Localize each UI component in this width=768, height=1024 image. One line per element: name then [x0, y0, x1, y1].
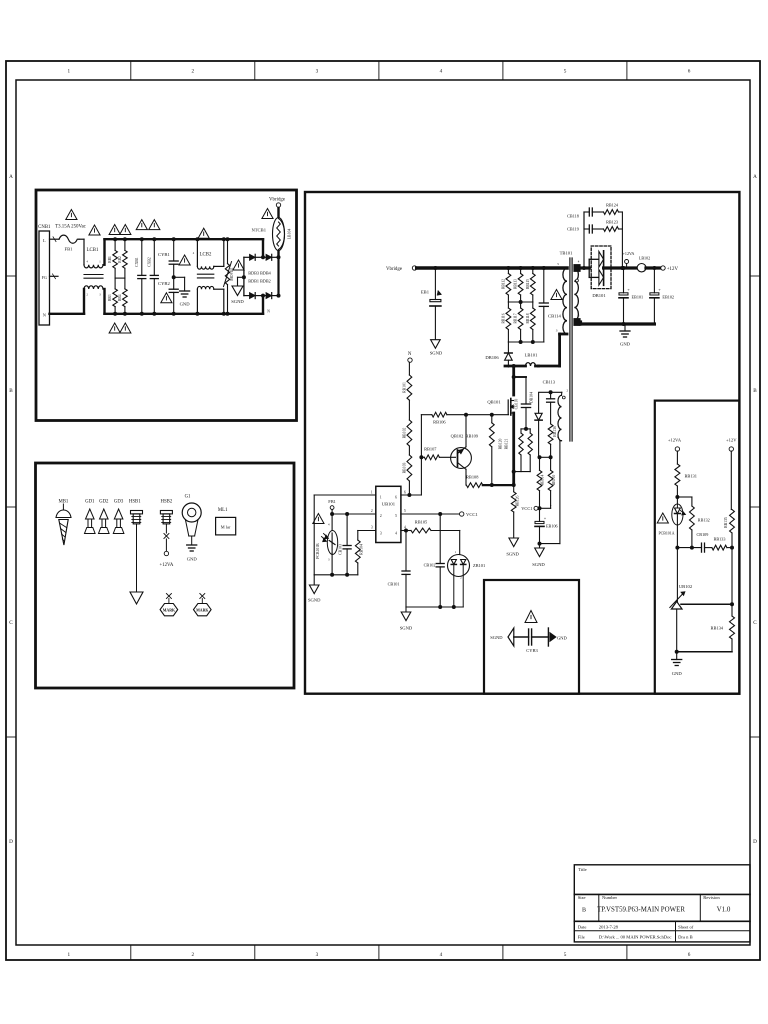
wire DB101 output [604, 266, 638, 269]
svg-text:CXB2: CXB2 [148, 257, 152, 267]
snubber resistor RB112 [506, 266, 510, 270]
svg-text:B: B [753, 388, 757, 394]
svg-text:EB102: EB102 [662, 295, 674, 300]
resistor RB124 [604, 210, 619, 215]
svg-text:CXB1: CXB1 [135, 257, 139, 267]
L rail top [105, 238, 264, 240]
svg-text:Size: Size [578, 895, 586, 900]
warning triangle right of CYB1 [179, 255, 190, 265]
svg-text:RB116: RB116 [501, 313, 505, 323]
svg-text:RB117: RB117 [514, 313, 518, 323]
left reference strip dividers [6, 275, 16, 277]
net +12VA pin [620, 266, 624, 270]
svg-text:Vbridge: Vbridge [386, 267, 402, 272]
diode DB104 [538, 392, 540, 413]
wire bridge negative to SGND [238, 276, 244, 278]
junction drain node [512, 364, 516, 368]
svg-text:RB114: RB114 [541, 475, 545, 486]
capacitor CB118 [583, 212, 585, 268]
wire gate drive vertical [420, 415, 422, 495]
capacitor CYB2 [173, 277, 175, 289]
svg-text:Title: Title [578, 867, 587, 872]
svg-text:1: 1 [371, 490, 373, 494]
resistor RB2 [124, 239, 126, 250]
svg-text:RB112: RB112 [501, 279, 505, 289]
svg-text:2: 2 [192, 952, 195, 958]
junction dots RB bank [113, 237, 117, 241]
svg-text:Number: Number [602, 895, 618, 900]
capacitor EB101 [622, 266, 626, 270]
svg-text:5: 5 [395, 514, 397, 518]
optocoupler PCB101B [331, 514, 333, 531]
svg-text:RB134: RB134 [711, 626, 724, 631]
inductor LB104 parallel [279, 219, 285, 250]
mechanical parts block border [36, 463, 295, 688]
wire LCB2 bottom pins [196, 289, 198, 314]
signal ground SGND below EB1 [431, 340, 441, 349]
svg-text:5: 5 [404, 509, 406, 513]
svg-text:UB102: UB102 [679, 584, 693, 589]
signal ground SGND of bridge [232, 286, 243, 296]
svg-text:D: D [9, 839, 13, 845]
svg-text:EB106: EB106 [546, 524, 558, 529]
svg-text:C: C [9, 620, 13, 626]
wire G1 to GND [191, 536, 193, 545]
controller UB101 [376, 486, 401, 542]
resistor RB105 [411, 528, 431, 533]
svg-text:6: 6 [688, 69, 691, 75]
net VCC1 pin aux [538, 506, 542, 510]
svg-text:VCC1: VCC1 [466, 512, 478, 517]
wire bridge positive to NTCB1 [277, 251, 279, 257]
svg-text:FB1: FB1 [328, 499, 336, 504]
svg-text:PCB101B: PCB101B [316, 543, 320, 559]
wire pin1 vertical to SGND rail [313, 495, 315, 575]
svg-text:A: A [9, 174, 13, 180]
warning triangle left of PCB101A [657, 513, 668, 523]
zener ZB101 [459, 531, 461, 555]
varistor MOVB1 [227, 239, 229, 263]
warning triangle above LCB2 [198, 228, 209, 238]
svg-text:+12VA: +12VA [623, 251, 635, 256]
resistor RB106 [432, 412, 447, 417]
svg-text:TP.VST59.P63-MAIN POWER: TP.VST59.P63-MAIN POWER [597, 906, 685, 913]
svg-text:CB118: CB118 [567, 214, 579, 219]
net +12VA pin of HSB2 [164, 551, 168, 555]
snubber resistor RB115 [531, 266, 535, 270]
wire CY junction to GND [174, 276, 185, 278]
wire opto bottom rail [314, 574, 358, 576]
resistor RB131 [676, 451, 678, 464]
svg-text:6: 6 [395, 495, 397, 499]
wire UB102 ref [681, 603, 732, 605]
svg-text:M lar: M lar [221, 525, 231, 530]
snubber resistor RB118 [532, 302, 534, 308]
svg-text:T3.15A 250Vac: T3.15A 250Vac [55, 224, 87, 229]
svg-text:ML1: ML1 [218, 508, 228, 513]
wire VCC local rail [406, 606, 463, 608]
capacitor CB110 snubber [512, 375, 516, 379]
svg-text:File: File [578, 935, 585, 940]
chassis triangle of HSB1 [130, 592, 143, 604]
svg-text:DB104: DB104 [530, 392, 534, 403]
wire QB101 source [512, 413, 515, 485]
svg-text:BDB3 BDB4: BDB3 BDB4 [248, 270, 271, 275]
wire LCB1 bottom right to N rail [103, 288, 105, 290]
common mode choke LCB2 [197, 266, 213, 269]
warning triangle in Y-cap box [525, 611, 537, 623]
svg-text:CYB1: CYB1 [158, 252, 170, 257]
svg-text:NTCB1: NTCB1 [251, 228, 266, 233]
svg-text:4: 4 [440, 69, 443, 75]
feedback sub-block border [655, 401, 740, 694]
wire HSB2 to +12VA [165, 524, 167, 533]
wire secondary ground rail [579, 322, 582, 324]
wire compensation node [677, 547, 701, 549]
svg-text:CYB2: CYB2 [158, 281, 170, 286]
resistor RB132 [677, 496, 692, 498]
svg-text:3: 3 [556, 329, 558, 333]
wire UB101 pin5 VCC1 [401, 513, 460, 515]
ground GND of secondary [624, 324, 626, 331]
svg-text:BDB1 BDB2: BDB1 BDB2 [248, 279, 270, 284]
svg-text:+: + [627, 287, 630, 292]
wire UB101 pin2 [332, 513, 376, 515]
warning triangle above LCB1 [89, 225, 100, 235]
svg-text:CB103: CB103 [338, 544, 342, 555]
resistor RB102 [408, 400, 410, 420]
wire aux junction [539, 456, 551, 458]
Y-cap sub-block border [484, 580, 579, 694]
title block outline [574, 865, 750, 942]
svg-text:RB131: RB131 [685, 474, 697, 479]
wire UB101 pin4 [401, 530, 411, 532]
bridge diode BDB4 [263, 256, 266, 258]
svg-text:CB113: CB113 [543, 380, 556, 385]
svg-text:RB109: RB109 [466, 434, 479, 439]
svg-text:N: N [267, 310, 270, 314]
svg-text:GND: GND [620, 342, 631, 347]
svg-text:+: + [658, 287, 661, 292]
resistor RB121 [529, 429, 531, 433]
transformer secondary pin stubs [574, 265, 580, 272]
resistor RB103 [408, 446, 410, 455]
resistor RB3 [114, 278, 116, 289]
capacitor CB109 [701, 543, 703, 552]
bottom reference strip dividers [130, 945, 132, 960]
svg-text:B: B [582, 908, 586, 914]
svg-text:RB126: RB126 [516, 496, 520, 507]
svg-text:5: 5 [564, 69, 567, 75]
svg-text:5: 5 [557, 262, 559, 266]
resistor RB120 [520, 429, 522, 433]
svg-text:LB101: LB101 [525, 353, 538, 358]
capacitor CYB1 [173, 239, 175, 261]
signal ground SGND of opto [313, 575, 315, 585]
svg-text:GD3: GD3 [114, 500, 124, 505]
main power block border [305, 192, 739, 694]
wire UB102 anode rail [676, 609, 678, 652]
inductor LB102 [637, 264, 646, 272]
shunt regulator UB102 [676, 548, 678, 602]
svg-text:SGND: SGND [231, 299, 244, 304]
resistor RB4 [124, 278, 126, 289]
svg-text:QB101: QB101 [487, 400, 501, 405]
svg-text:RB101: RB101 [402, 382, 406, 393]
svg-text:2: 2 [380, 514, 382, 518]
warning triangles above CXB1 CXB2 [136, 220, 147, 230]
svg-text:RB120: RB120 [499, 439, 503, 450]
svg-text:RB113: RB113 [514, 279, 518, 289]
capacitor CB103 [345, 512, 349, 516]
snubber resistor RB117 [520, 302, 522, 308]
signal ground SGND below CB101 [405, 607, 407, 612]
svg-text:SGND: SGND [506, 552, 519, 557]
resistor RB135 [730, 451, 732, 509]
svg-text:RB124: RB124 [606, 203, 619, 208]
svg-text:Sheet of: Sheet of [678, 924, 694, 929]
svg-text:UB101: UB101 [382, 502, 396, 507]
wire drain node to LB101 [505, 365, 526, 368]
wire RB mid link [115, 277, 125, 279]
common mode choke LCB1 [84, 265, 103, 268]
top reference strip dividers [130, 61, 132, 80]
ground GND of feedback [676, 652, 678, 660]
wire QB101 drain [512, 366, 515, 395]
wire snubber mid rail [508, 301, 532, 303]
svg-text:DB106: DB106 [485, 355, 499, 360]
svg-text:A: A [753, 174, 757, 180]
svg-text:ZB101: ZB101 [473, 563, 485, 568]
snubber resistor RB116 [507, 302, 509, 308]
svg-text:4: 4 [440, 952, 443, 958]
resistor RB133 [705, 547, 712, 549]
capacitor CYB3 [528, 629, 530, 645]
rectifier DB101 [591, 246, 611, 289]
resistor RB123 [604, 227, 619, 232]
wire gate drive [421, 414, 432, 416]
net Vbridge output [277, 207, 279, 217]
svg-text:Vbridge: Vbridge [269, 198, 285, 203]
mylar box ML1 [216, 517, 236, 535]
bridge diode BDB3 [244, 256, 250, 258]
svg-text:CB109: CB109 [697, 532, 709, 537]
svg-text:+12VA: +12VA [159, 563, 173, 568]
svg-text:CB101: CB101 [388, 582, 400, 587]
svg-text:FG: FG [42, 276, 47, 280]
signal ground SGND below RB126 [509, 538, 519, 547]
svg-text:MARK: MARK [163, 609, 175, 613]
wire primary bus [417, 266, 567, 270]
svg-text:RB103: RB103 [402, 463, 406, 474]
svg-text:5: 5 [564, 952, 567, 958]
svg-text:SGND: SGND [308, 598, 321, 603]
capacitor EB106 [539, 508, 541, 521]
net +12V pin feedback [729, 447, 733, 451]
wire divider node [730, 546, 734, 550]
svg-text:GD1: GD1 [85, 500, 95, 505]
svg-text:4: 4 [395, 532, 397, 536]
N rail bottom [105, 313, 264, 315]
svg-text:CB110: CB110 [515, 399, 519, 410]
wire RB108 to source node [483, 484, 514, 486]
capacitor CB114 [542, 266, 546, 270]
svg-text:6: 6 [688, 952, 691, 958]
wire LCB2 top pins [196, 239, 198, 266]
bridge negative bus [243, 257, 245, 295]
resistor RB107 [419, 455, 423, 459]
svg-text:3: 3 [380, 532, 382, 536]
svg-text:L: L [43, 238, 46, 243]
transistor QB102 [451, 448, 472, 469]
capacitor CB101 [405, 531, 407, 572]
svg-text:Dra n B: Dra n B [678, 935, 693, 940]
net +12V pin [661, 266, 665, 270]
title block column lines [598, 894, 600, 921]
svg-text:RB123: RB123 [606, 220, 618, 225]
mark symbol MARK2 [200, 594, 205, 599]
svg-text:G1: G1 [185, 495, 191, 500]
resistor RB134 [731, 604, 733, 616]
svg-text:LCB2: LCB2 [200, 253, 212, 258]
svg-text:DB101: DB101 [592, 293, 606, 298]
svg-text:CB114: CB114 [548, 314, 562, 319]
svg-text:+12V: +12V [726, 438, 737, 443]
wire aux return rail [540, 543, 560, 545]
resistor RB114 [539, 457, 541, 470]
snubber resistor RB113 [519, 266, 523, 270]
capacitor EB102 [653, 268, 655, 293]
connector CNB1 [39, 231, 50, 325]
resistor RB108 [466, 483, 482, 488]
svg-text:GD2: GD2 [99, 500, 109, 505]
capacitor CXB2 [153, 239, 155, 275]
svg-text:GND: GND [180, 302, 191, 307]
transformer aux winding [558, 395, 562, 440]
svg-text:3: 3 [371, 526, 373, 530]
svg-text:RB132: RB132 [698, 518, 710, 523]
capacitor CB119 [583, 212, 585, 229]
svg-text:GND: GND [557, 636, 567, 641]
svg-text:RB110: RB110 [552, 475, 556, 486]
resistor RB109 [490, 413, 494, 417]
warning triangle left of PCB101B [313, 514, 324, 524]
svg-text:GND: GND [672, 671, 683, 676]
svg-text:EB1: EB1 [421, 290, 430, 295]
wire HSB1 to chassis [136, 524, 138, 592]
wire UB101 pin1 [314, 494, 376, 496]
svg-text:RB133: RB133 [714, 537, 726, 542]
svg-text:TB101: TB101 [560, 251, 573, 256]
svg-text:C: C [753, 620, 757, 626]
svg-text:V1.0: V1.0 [717, 905, 731, 913]
svg-text:1: 1 [68, 69, 71, 75]
wire CNB1 FG pin [50, 275, 59, 277]
ground arrow GND right [532, 636, 549, 638]
svg-text:2013-7-28: 2013-7-28 [599, 924, 619, 929]
svg-text:B: B [9, 388, 13, 394]
svg-text:1: 1 [380, 495, 382, 499]
ground GND of CY caps [180, 290, 190, 292]
svg-text:D: D [753, 839, 757, 845]
svg-text:RB121: RB121 [505, 439, 509, 450]
optocoupler PCB101A LED [675, 495, 679, 499]
svg-text:SGND: SGND [490, 635, 503, 640]
svg-text:EB101: EB101 [632, 295, 644, 300]
warning triangles below RB3 RB4 [109, 323, 120, 333]
mark symbol MARK1 [166, 594, 171, 599]
svg-text:HSB2: HSB2 [161, 500, 173, 505]
resistor RB104 [357, 531, 359, 541]
wire snubber bottom rail [508, 341, 543, 343]
svg-text:2: 2 [371, 509, 373, 513]
svg-text:PCB101A: PCB101A [659, 532, 675, 536]
svg-text:RB136: RB136 [553, 426, 557, 437]
svg-text:N: N [408, 352, 412, 357]
svg-text:RB4: RB4 [118, 294, 122, 301]
wire L to bridge [262, 239, 264, 257]
diode DB106 [507, 342, 509, 353]
capacitor CXB1 [141, 239, 143, 275]
inductor LB101 [526, 363, 536, 366]
svg-text:RB105: RB105 [415, 520, 428, 525]
transistor QB101 MOSFET [510, 399, 512, 404]
warning triangle below CYB2 [161, 293, 172, 303]
wire FB1 to LCB1 [79, 238, 84, 240]
capacitor CB113 [540, 391, 562, 393]
AC input filter block border [36, 190, 297, 421]
svg-text:D:\Work ... 00 MAIN POWER.Sch: D:\Work ... 00 MAIN POWER.SchDoc [599, 935, 672, 940]
title block row lines [574, 893, 750, 895]
wire UB101 pin3 [358, 530, 376, 532]
svg-text:LCB1: LCB1 [87, 248, 99, 253]
svg-text:RB118: RB118 [526, 313, 530, 323]
bridge diode BDB1 [244, 295, 250, 297]
warning triangles above RB1 RB2 [109, 225, 120, 235]
svg-text:1: 1 [68, 952, 71, 958]
capacitor CB102 [438, 512, 442, 516]
svg-text:RB135: RB135 [724, 517, 728, 528]
wire CNB1 N pin [50, 313, 85, 315]
svg-text:CB119: CB119 [567, 227, 579, 232]
warning triangle right of CB114 [551, 290, 562, 300]
resistor RB101 [408, 362, 410, 375]
warning triangle right of MOVB1 [233, 260, 244, 270]
wire LB101 to transformer pin3 [538, 365, 559, 368]
svg-text:3: 3 [316, 69, 319, 75]
svg-text:HSB1: HSB1 [129, 500, 141, 505]
svg-text:RB3: RB3 [108, 294, 112, 301]
svg-text:LB104: LB104 [288, 229, 292, 240]
capacitor EB1 [433, 266, 437, 270]
wire snubber to +12VA node [621, 212, 623, 268]
svg-text:CNB1: CNB1 [38, 225, 51, 230]
warning triangle left of NTCB1 [262, 209, 273, 219]
svg-text:+12VA: +12VA [668, 438, 682, 443]
resistor RB126 current sense [513, 485, 515, 492]
svg-text:CB102: CB102 [424, 563, 436, 568]
svg-text:RB104: RB104 [360, 544, 364, 555]
right reference strip dividers [750, 275, 760, 277]
svg-text:RB107: RB107 [424, 447, 437, 452]
bridge positive bus [277, 257, 279, 295]
svg-text:MARK: MARK [196, 609, 208, 613]
wire LCB1 bottom left to N rail [83, 289, 85, 314]
svg-text:FB1: FB1 [65, 247, 74, 252]
wire snubber loop rails [521, 428, 530, 430]
svg-text:RB108: RB108 [466, 475, 479, 480]
svg-text:RB102: RB102 [402, 428, 406, 439]
